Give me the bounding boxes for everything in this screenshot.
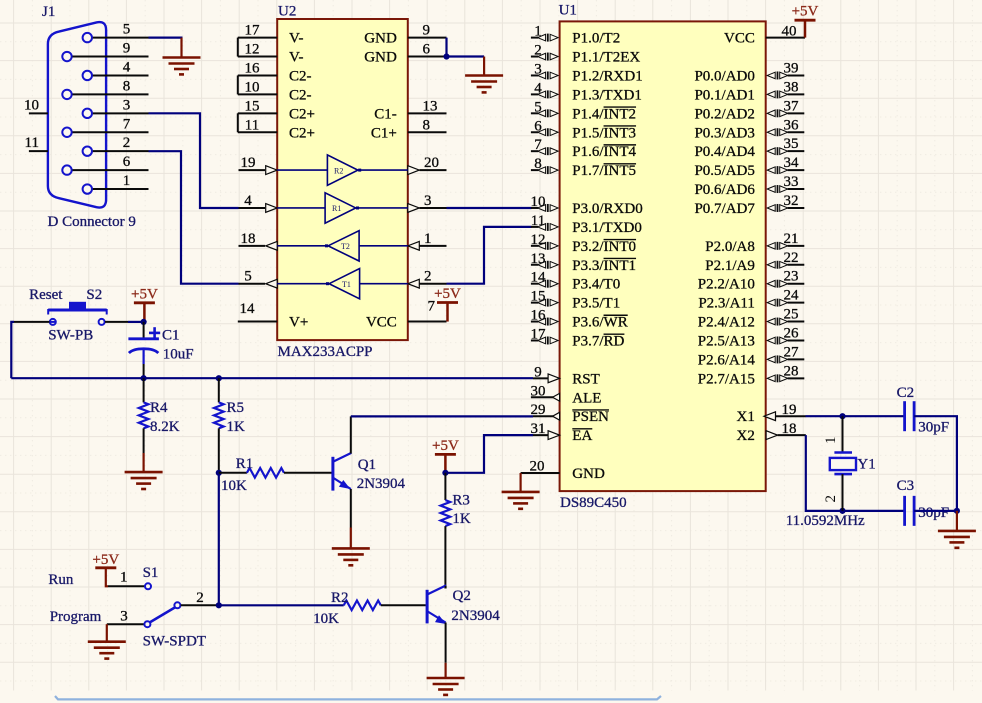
U1 pin 21 P2.0/A8 bbox=[705, 231, 804, 255]
svg-text:C2-: C2- bbox=[289, 87, 312, 103]
svg-text:15: 15 bbox=[531, 289, 546, 305]
svg-text:R2: R2 bbox=[331, 590, 349, 606]
svg-text:11.0592MHz: 11.0592MHz bbox=[786, 513, 865, 529]
svg-text:P0.3/AD3: P0.3/AD3 bbox=[694, 125, 754, 141]
svg-text:P2.5/A13: P2.5/A13 bbox=[698, 333, 755, 349]
U2 pin 18 bbox=[239, 231, 278, 250]
svg-text:S2: S2 bbox=[86, 287, 102, 303]
svg-text:V-: V- bbox=[289, 31, 303, 47]
svg-text:35: 35 bbox=[784, 136, 799, 152]
S1 pin 3 bbox=[107, 609, 151, 628]
junction bus/C1/R4 bbox=[141, 375, 147, 381]
U1 pin 25 P2.4/A12 bbox=[698, 307, 804, 331]
svg-text:T1: T1 bbox=[342, 280, 351, 289]
svg-text:17: 17 bbox=[245, 23, 261, 39]
U2 pin 2 bbox=[408, 269, 447, 288]
J1 comment D Connector 9 bbox=[48, 214, 136, 230]
U1 pin 33 P0.6/AD6 bbox=[694, 174, 804, 198]
U1 pin 2 P1.1/T2EX bbox=[531, 43, 640, 66]
svg-text:P3.1/TXD0: P3.1/TXD0 bbox=[572, 220, 642, 236]
U2 pin 20 bbox=[408, 155, 447, 174]
U2 pin 8 C1+ bbox=[371, 117, 447, 141]
svg-text:1K: 1K bbox=[227, 419, 246, 435]
svg-text:4: 4 bbox=[244, 193, 252, 209]
J1 pin 5 bbox=[93, 22, 149, 38]
svg-text:SW-SPDT: SW-SPDT bbox=[143, 634, 206, 650]
Y1 value 11.0592MHz bbox=[786, 513, 865, 529]
R5 value 1K bbox=[227, 419, 246, 435]
svg-text:8: 8 bbox=[123, 78, 131, 94]
svg-text:P1.3/TXD1: P1.3/TXD1 bbox=[572, 87, 642, 103]
power +5V at U2 VCC bbox=[434, 286, 461, 322]
svg-text:12: 12 bbox=[531, 232, 546, 248]
capacitor C1 bbox=[128, 322, 160, 378]
J1 pin 2 bbox=[93, 135, 149, 151]
svg-text:1: 1 bbox=[534, 24, 542, 40]
svg-text:P0.5/AD5: P0.5/AD5 bbox=[694, 163, 754, 179]
svg-text:P0.7/AD7: P0.7/AD7 bbox=[694, 201, 755, 217]
U2 receiver T1in buffer bbox=[277, 268, 408, 298]
svg-text:10: 10 bbox=[24, 97, 39, 113]
Q2 value 2N3904 bbox=[451, 608, 500, 624]
S1 pin 2 common bbox=[174, 590, 218, 608]
switch S2 designator bbox=[86, 287, 102, 303]
svg-text:P2.6/A14: P2.6/A14 bbox=[698, 352, 756, 368]
svg-text:MAX233ACPP: MAX233ACPP bbox=[278, 344, 373, 360]
svg-text:10uF: 10uF bbox=[163, 347, 194, 363]
R1 value 10K bbox=[221, 478, 247, 494]
J1 pin 4 bbox=[93, 59, 149, 75]
C3 value 30pF bbox=[918, 505, 949, 521]
svg-text:2: 2 bbox=[196, 590, 204, 606]
power +5V at C1 bbox=[131, 286, 158, 322]
svg-text:11: 11 bbox=[25, 135, 39, 151]
U1 pin 36 P0.3/AD3 bbox=[694, 117, 804, 141]
resistor R1 bbox=[219, 468, 332, 478]
svg-text:13: 13 bbox=[423, 98, 438, 114]
svg-text:U1: U1 bbox=[559, 3, 577, 19]
svg-text:20: 20 bbox=[424, 155, 439, 171]
svg-text:2: 2 bbox=[123, 135, 131, 151]
ground at Q2 bbox=[427, 678, 465, 695]
U2 pin 3 bbox=[408, 193, 447, 212]
ground at Q1 bbox=[332, 548, 370, 565]
svg-text:1: 1 bbox=[123, 173, 131, 189]
svg-text:8: 8 bbox=[423, 117, 431, 133]
transistor Q1 bbox=[333, 453, 351, 491]
IC U1 body bbox=[560, 21, 766, 491]
svg-text:Q1: Q1 bbox=[358, 457, 376, 473]
svg-text:P3.4/T0: P3.4/T0 bbox=[572, 277, 620, 293]
svg-text:VCC: VCC bbox=[366, 315, 397, 331]
svg-text:Run: Run bbox=[48, 572, 74, 588]
svg-text:18: 18 bbox=[241, 231, 256, 247]
U2 pin 17 V- bbox=[238, 23, 304, 47]
svg-text:P2.3/A11: P2.3/A11 bbox=[698, 296, 755, 312]
U2 pin 16 C2- bbox=[238, 60, 312, 84]
junction X1/Y1 bbox=[839, 413, 845, 419]
U1 pin 40 VCC bbox=[724, 24, 805, 47]
resistor R3 bbox=[441, 473, 451, 589]
U1 pin 16 P3.6/WR bbox=[531, 308, 628, 331]
svg-text:R3: R3 bbox=[452, 493, 470, 509]
junction S2/+5V/C1 bbox=[141, 319, 147, 325]
U1 pin 39 P0.0/AD0 bbox=[694, 60, 804, 84]
svg-text:Reset: Reset bbox=[29, 287, 63, 303]
svg-text:2N3904: 2N3904 bbox=[451, 608, 500, 624]
U1 pin 6 P1.5/INT3 bbox=[531, 118, 636, 141]
svg-text:P2.1/A9: P2.1/A9 bbox=[705, 258, 755, 274]
wire S2 right to +5V node bbox=[128, 321, 144, 323]
wire X1 to crystal/C2 bbox=[806, 415, 905, 417]
svg-text:P1.2/RXD1: P1.2/RXD1 bbox=[572, 68, 642, 84]
wire U2 pins 16-10 tie bbox=[237, 75, 239, 94]
J1 pin 8 bbox=[73, 78, 149, 94]
svg-text:3: 3 bbox=[534, 61, 542, 77]
U1 pin 11 P3.1/TXD0 bbox=[531, 213, 642, 236]
svg-text:P1.6/INT4: P1.6/INT4 bbox=[572, 144, 636, 160]
svg-text:34: 34 bbox=[784, 155, 800, 171]
svg-text:C1: C1 bbox=[162, 328, 180, 344]
U1 pin 12 P3.2/INT0 bbox=[531, 232, 637, 255]
svg-text:P0.4/AD4: P0.4/AD4 bbox=[694, 144, 755, 160]
S1 pin 1 bbox=[108, 570, 151, 590]
junction R5/R1 bbox=[216, 470, 222, 476]
wire to crystal ground bbox=[956, 511, 958, 531]
svg-text:6: 6 bbox=[534, 118, 542, 134]
svg-text:40: 40 bbox=[782, 24, 797, 40]
svg-text:SW-PB: SW-PB bbox=[48, 328, 93, 344]
U1 pin 37 P0.2/AD2 bbox=[694, 98, 804, 122]
svg-text:18: 18 bbox=[782, 421, 797, 437]
svg-text:PSEN: PSEN bbox=[572, 409, 609, 425]
svg-text:30pF: 30pF bbox=[918, 420, 949, 436]
U1 pin 32 P0.7/AD7 bbox=[694, 193, 804, 217]
svg-text:1: 1 bbox=[120, 570, 128, 586]
Y1 designator bbox=[857, 457, 875, 473]
J1 pin 7 bbox=[73, 116, 149, 132]
ground at U2 bbox=[465, 76, 503, 93]
power +5V at R3 bbox=[432, 438, 459, 473]
wire J1 pin3 to U2 pin4 bbox=[149, 113, 239, 208]
ground at J1 pin5 bbox=[163, 58, 201, 75]
svg-text:P2.2/A10: P2.2/A10 bbox=[698, 277, 755, 293]
U1 pin 23 P2.2/A10 bbox=[698, 269, 804, 293]
U1 pin 7 P1.6/INT4 bbox=[531, 137, 637, 160]
U1 pin 28 P2.7/A15 bbox=[698, 363, 804, 387]
ground at S1 bbox=[88, 642, 126, 659]
svg-text:1: 1 bbox=[823, 437, 839, 445]
svg-text:J1: J1 bbox=[42, 4, 55, 20]
svg-text:14: 14 bbox=[240, 301, 256, 317]
svg-text:C1-: C1- bbox=[374, 106, 397, 122]
svg-text:D Connector 9: D Connector 9 bbox=[48, 214, 136, 230]
svg-text:9: 9 bbox=[123, 41, 131, 57]
U1 pin 34 P0.5/AD5 bbox=[694, 155, 804, 179]
U1 pin 18 X2 bbox=[737, 421, 806, 444]
svg-text:P0.1/AD1: P0.1/AD1 bbox=[694, 87, 754, 103]
svg-text:RST: RST bbox=[572, 371, 600, 387]
svg-text:P0.6/AD6: P0.6/AD6 bbox=[694, 182, 755, 198]
svg-text:3: 3 bbox=[120, 609, 128, 625]
svg-text:21: 21 bbox=[784, 231, 799, 247]
switch S2 SW-PB bbox=[14, 302, 128, 325]
svg-text:Program: Program bbox=[50, 609, 102, 625]
S1 comment SW-SPDT bbox=[143, 634, 206, 650]
wire RST bus bbox=[11, 377, 533, 379]
svg-text:30: 30 bbox=[531, 383, 546, 399]
U1 pin 38 P0.1/AD1 bbox=[694, 79, 804, 103]
C2 designator bbox=[897, 385, 915, 401]
svg-text:27: 27 bbox=[784, 344, 800, 360]
svg-text:37: 37 bbox=[784, 98, 800, 114]
R3 value 1K bbox=[452, 511, 471, 527]
C3 designator bbox=[897, 478, 915, 494]
U1 pin 3 P1.2/RXD1 bbox=[531, 61, 643, 84]
U1 pin 10 P3.0/RXD0 bbox=[531, 194, 643, 217]
svg-text:GND: GND bbox=[572, 466, 605, 482]
svg-text:6: 6 bbox=[123, 154, 131, 170]
svg-text:R2: R2 bbox=[334, 166, 343, 175]
svg-text:24: 24 bbox=[784, 288, 800, 304]
svg-text:X2: X2 bbox=[737, 428, 755, 444]
wire Q1 emitter to ground bbox=[350, 489, 352, 548]
U1 comment DS89C450 bbox=[560, 495, 627, 511]
svg-text:11: 11 bbox=[245, 117, 259, 133]
U2 driver R1out buffer bbox=[277, 193, 408, 223]
svg-text:2: 2 bbox=[424, 269, 432, 285]
svg-text:R1: R1 bbox=[236, 456, 254, 472]
junction X2/Y1 bbox=[839, 508, 845, 514]
svg-text:+5V: +5V bbox=[131, 286, 158, 302]
svg-text:P3.7/RD: P3.7/RD bbox=[572, 333, 624, 349]
svg-text:C3: C3 bbox=[897, 478, 915, 494]
S2 comment SW-PB bbox=[48, 328, 93, 344]
R1 designator bbox=[236, 456, 254, 472]
svg-text:19: 19 bbox=[241, 155, 256, 171]
svg-text:C2-: C2- bbox=[289, 68, 312, 84]
svg-text:C2+: C2+ bbox=[289, 125, 315, 141]
svg-text:V-: V- bbox=[289, 50, 303, 66]
wire S1 node to R2 bbox=[219, 604, 344, 606]
svg-text:P3.6/WR: P3.6/WR bbox=[572, 315, 627, 331]
svg-text:10: 10 bbox=[245, 79, 260, 95]
U2 pin 5 bbox=[239, 269, 278, 288]
svg-text:P2.4/A12: P2.4/A12 bbox=[698, 315, 755, 331]
wire Q1 collector to PSEN bbox=[351, 416, 533, 453]
wire Q2 emitter to ground bbox=[445, 623, 447, 679]
wire +5V node to EA bbox=[445, 435, 533, 473]
svg-text:11: 11 bbox=[531, 213, 545, 229]
U1 pin 29 PSEN bbox=[531, 402, 610, 425]
power +5V at S1 bbox=[92, 552, 119, 586]
U1 pin 22 P2.1/A9 bbox=[705, 250, 804, 274]
J1 pin 10 bbox=[24, 97, 48, 113]
svg-text:+5V: +5V bbox=[432, 438, 459, 454]
wire U2 pin3 to U1 pin10 bbox=[447, 207, 532, 209]
R2 designator bbox=[331, 590, 349, 606]
svg-text:1: 1 bbox=[424, 231, 432, 247]
svg-text:25: 25 bbox=[784, 307, 799, 323]
Q1 designator bbox=[358, 457, 376, 473]
junction U2 gnd bbox=[443, 53, 449, 59]
svg-text:23: 23 bbox=[784, 269, 799, 285]
svg-text:28: 28 bbox=[784, 363, 799, 379]
R5 designator bbox=[227, 400, 245, 416]
U1 designator bbox=[559, 3, 577, 19]
svg-text:U2: U2 bbox=[278, 4, 296, 20]
connector J1 bbox=[48, 22, 106, 207]
crystal Y1 bbox=[830, 416, 856, 511]
switch S1 designator bbox=[143, 565, 159, 581]
svg-text:P2.7/A15: P2.7/A15 bbox=[698, 371, 755, 387]
svg-text:1K: 1K bbox=[452, 511, 471, 527]
svg-text:S1: S1 bbox=[143, 565, 159, 581]
svg-text:4: 4 bbox=[534, 80, 542, 96]
power +5V at U1 VCC bbox=[792, 4, 819, 38]
transistor Q2 bbox=[427, 585, 446, 624]
svg-text:R5: R5 bbox=[227, 400, 245, 416]
svg-text:C1+: C1+ bbox=[371, 125, 397, 141]
wire C2/C3 right side bbox=[914, 416, 957, 511]
svg-text:9: 9 bbox=[423, 23, 431, 39]
U2 driver T2out buffer bbox=[277, 155, 408, 185]
U1 pin 14 P3.4/T0 bbox=[531, 270, 621, 293]
svg-text:C2+: C2+ bbox=[289, 106, 315, 122]
net label Reset bbox=[29, 287, 63, 303]
svg-text:8.2K: 8.2K bbox=[150, 419, 180, 435]
R4 designator bbox=[150, 400, 168, 416]
svg-text:9: 9 bbox=[534, 364, 542, 380]
U2 pin 11 C2+ bbox=[238, 117, 315, 141]
wire U2 pin2 to U1 pin11 bbox=[447, 227, 532, 284]
op-amp U2 body bbox=[277, 19, 408, 340]
svg-text:38: 38 bbox=[784, 79, 799, 95]
svg-text:36: 36 bbox=[784, 117, 800, 133]
wire J1 pin5 to ground bbox=[149, 38, 183, 58]
svg-text:39: 39 bbox=[784, 60, 799, 76]
U2 pin 14 V+ bbox=[238, 301, 308, 331]
svg-text:8: 8 bbox=[534, 156, 542, 172]
svg-text:7: 7 bbox=[534, 137, 542, 153]
U2 pin 7 VCC bbox=[366, 299, 447, 331]
svg-text:26: 26 bbox=[784, 325, 800, 341]
U1 pin 9 RST bbox=[533, 364, 600, 387]
svg-text:EA: EA bbox=[572, 428, 592, 444]
svg-text:3: 3 bbox=[424, 193, 432, 209]
svg-text:3: 3 bbox=[123, 97, 131, 113]
U1 pin 26 P2.5/A13 bbox=[698, 325, 804, 349]
wire U2 pins 15-11 tie bbox=[237, 113, 239, 132]
wire U2 GND pins to ground bbox=[447, 38, 485, 76]
svg-text:30pF: 30pF bbox=[918, 505, 949, 521]
svg-text:2: 2 bbox=[823, 495, 839, 503]
U1 pin 24 P2.3/A11 bbox=[698, 288, 804, 312]
svg-text:P3.5/T1: P3.5/T1 bbox=[572, 296, 620, 312]
wire U1 GND pin to ground bbox=[519, 473, 521, 492]
resistor R2 bbox=[344, 601, 426, 611]
U1 pin 17 P3.7/RD bbox=[531, 326, 625, 349]
svg-text:22: 22 bbox=[784, 250, 799, 266]
U2 pin 1 bbox=[408, 231, 447, 250]
svg-text:+5V: +5V bbox=[92, 552, 119, 568]
junction bus/R5 bbox=[216, 375, 222, 381]
U2 pin 19 bbox=[239, 155, 278, 174]
svg-text:P1.4/INT2: P1.4/INT2 bbox=[572, 106, 636, 122]
svg-text:ALE: ALE bbox=[572, 390, 601, 406]
resistor R4 bbox=[139, 378, 149, 453]
U1 pin 4 P1.3/TXD1 bbox=[531, 80, 642, 103]
svg-text:X1: X1 bbox=[737, 409, 755, 425]
svg-text:P2.0/A8: P2.0/A8 bbox=[705, 239, 755, 255]
svg-text:+5V: +5V bbox=[434, 286, 461, 302]
U1 pin 5 P1.4/INT2 bbox=[531, 99, 636, 122]
U1 pin 27 P2.6/A14 bbox=[698, 344, 804, 368]
svg-text:2N3904: 2N3904 bbox=[357, 476, 406, 492]
svg-text:16: 16 bbox=[245, 60, 261, 76]
svg-text:R4: R4 bbox=[150, 400, 168, 416]
svg-text:P3.0/RXD0: P3.0/RXD0 bbox=[572, 201, 642, 217]
junction C3/ground bbox=[954, 508, 960, 514]
svg-text:20: 20 bbox=[530, 458, 545, 474]
svg-text:16: 16 bbox=[531, 308, 547, 324]
svg-text:P1.0/T2: P1.0/T2 bbox=[572, 31, 620, 47]
ground at U1 GND bbox=[502, 492, 540, 509]
svg-text:+5V: +5V bbox=[792, 4, 819, 20]
svg-text:5: 5 bbox=[534, 99, 542, 115]
svg-text:10K: 10K bbox=[313, 611, 339, 627]
ground at R4 bbox=[125, 472, 163, 489]
U1 pin 15 P3.5/T1 bbox=[531, 289, 621, 312]
capacitor C2 bbox=[905, 401, 915, 431]
junction +5V/R3/EA bbox=[442, 470, 448, 476]
svg-text:15: 15 bbox=[245, 98, 260, 114]
U2 pin 13 C1- bbox=[374, 98, 446, 122]
U1 pin 13 P3.3/INT1 bbox=[531, 251, 637, 274]
svg-text:P0.0/AD0: P0.0/AD0 bbox=[694, 68, 754, 84]
resistor R5 bbox=[214, 378, 224, 473]
net label Run bbox=[48, 572, 74, 588]
C2 value 30pF bbox=[918, 420, 949, 436]
svg-text:P3.3/INT1: P3.3/INT1 bbox=[572, 258, 636, 274]
svg-text:13: 13 bbox=[531, 251, 546, 267]
U2 pin 12 V- bbox=[238, 42, 304, 66]
wire U2 pins 17-12 tie bbox=[237, 38, 239, 57]
U2 pin 9 GND bbox=[364, 23, 446, 47]
svg-text:VCC: VCC bbox=[724, 31, 755, 47]
U2 pin 6 GND bbox=[364, 42, 446, 66]
svg-text:10: 10 bbox=[531, 194, 546, 210]
svg-text:P3.2/INT0: P3.2/INT0 bbox=[572, 239, 636, 255]
Y1 pin 1 label bbox=[823, 437, 839, 445]
wire S1 pin3 to ground bbox=[106, 624, 108, 642]
svg-text:GND: GND bbox=[364, 50, 397, 66]
svg-text:6: 6 bbox=[423, 42, 431, 58]
U2 comment MAX233ACPP bbox=[278, 344, 373, 360]
svg-text:2: 2 bbox=[534, 43, 542, 59]
svg-text:V+: V+ bbox=[289, 315, 308, 331]
R4 value 8.2K bbox=[150, 419, 180, 435]
U1 pin 31 EA bbox=[531, 421, 593, 444]
svg-text:19: 19 bbox=[782, 402, 797, 418]
J1 pin 3 bbox=[93, 97, 149, 113]
U2 designator bbox=[278, 4, 296, 20]
U2 pin 10 C2- bbox=[238, 79, 312, 103]
J1 designator bbox=[42, 4, 55, 20]
J1 pin 1 bbox=[93, 173, 149, 189]
S1 lever bbox=[150, 607, 175, 622]
U1 pin 30 ALE bbox=[531, 383, 602, 406]
